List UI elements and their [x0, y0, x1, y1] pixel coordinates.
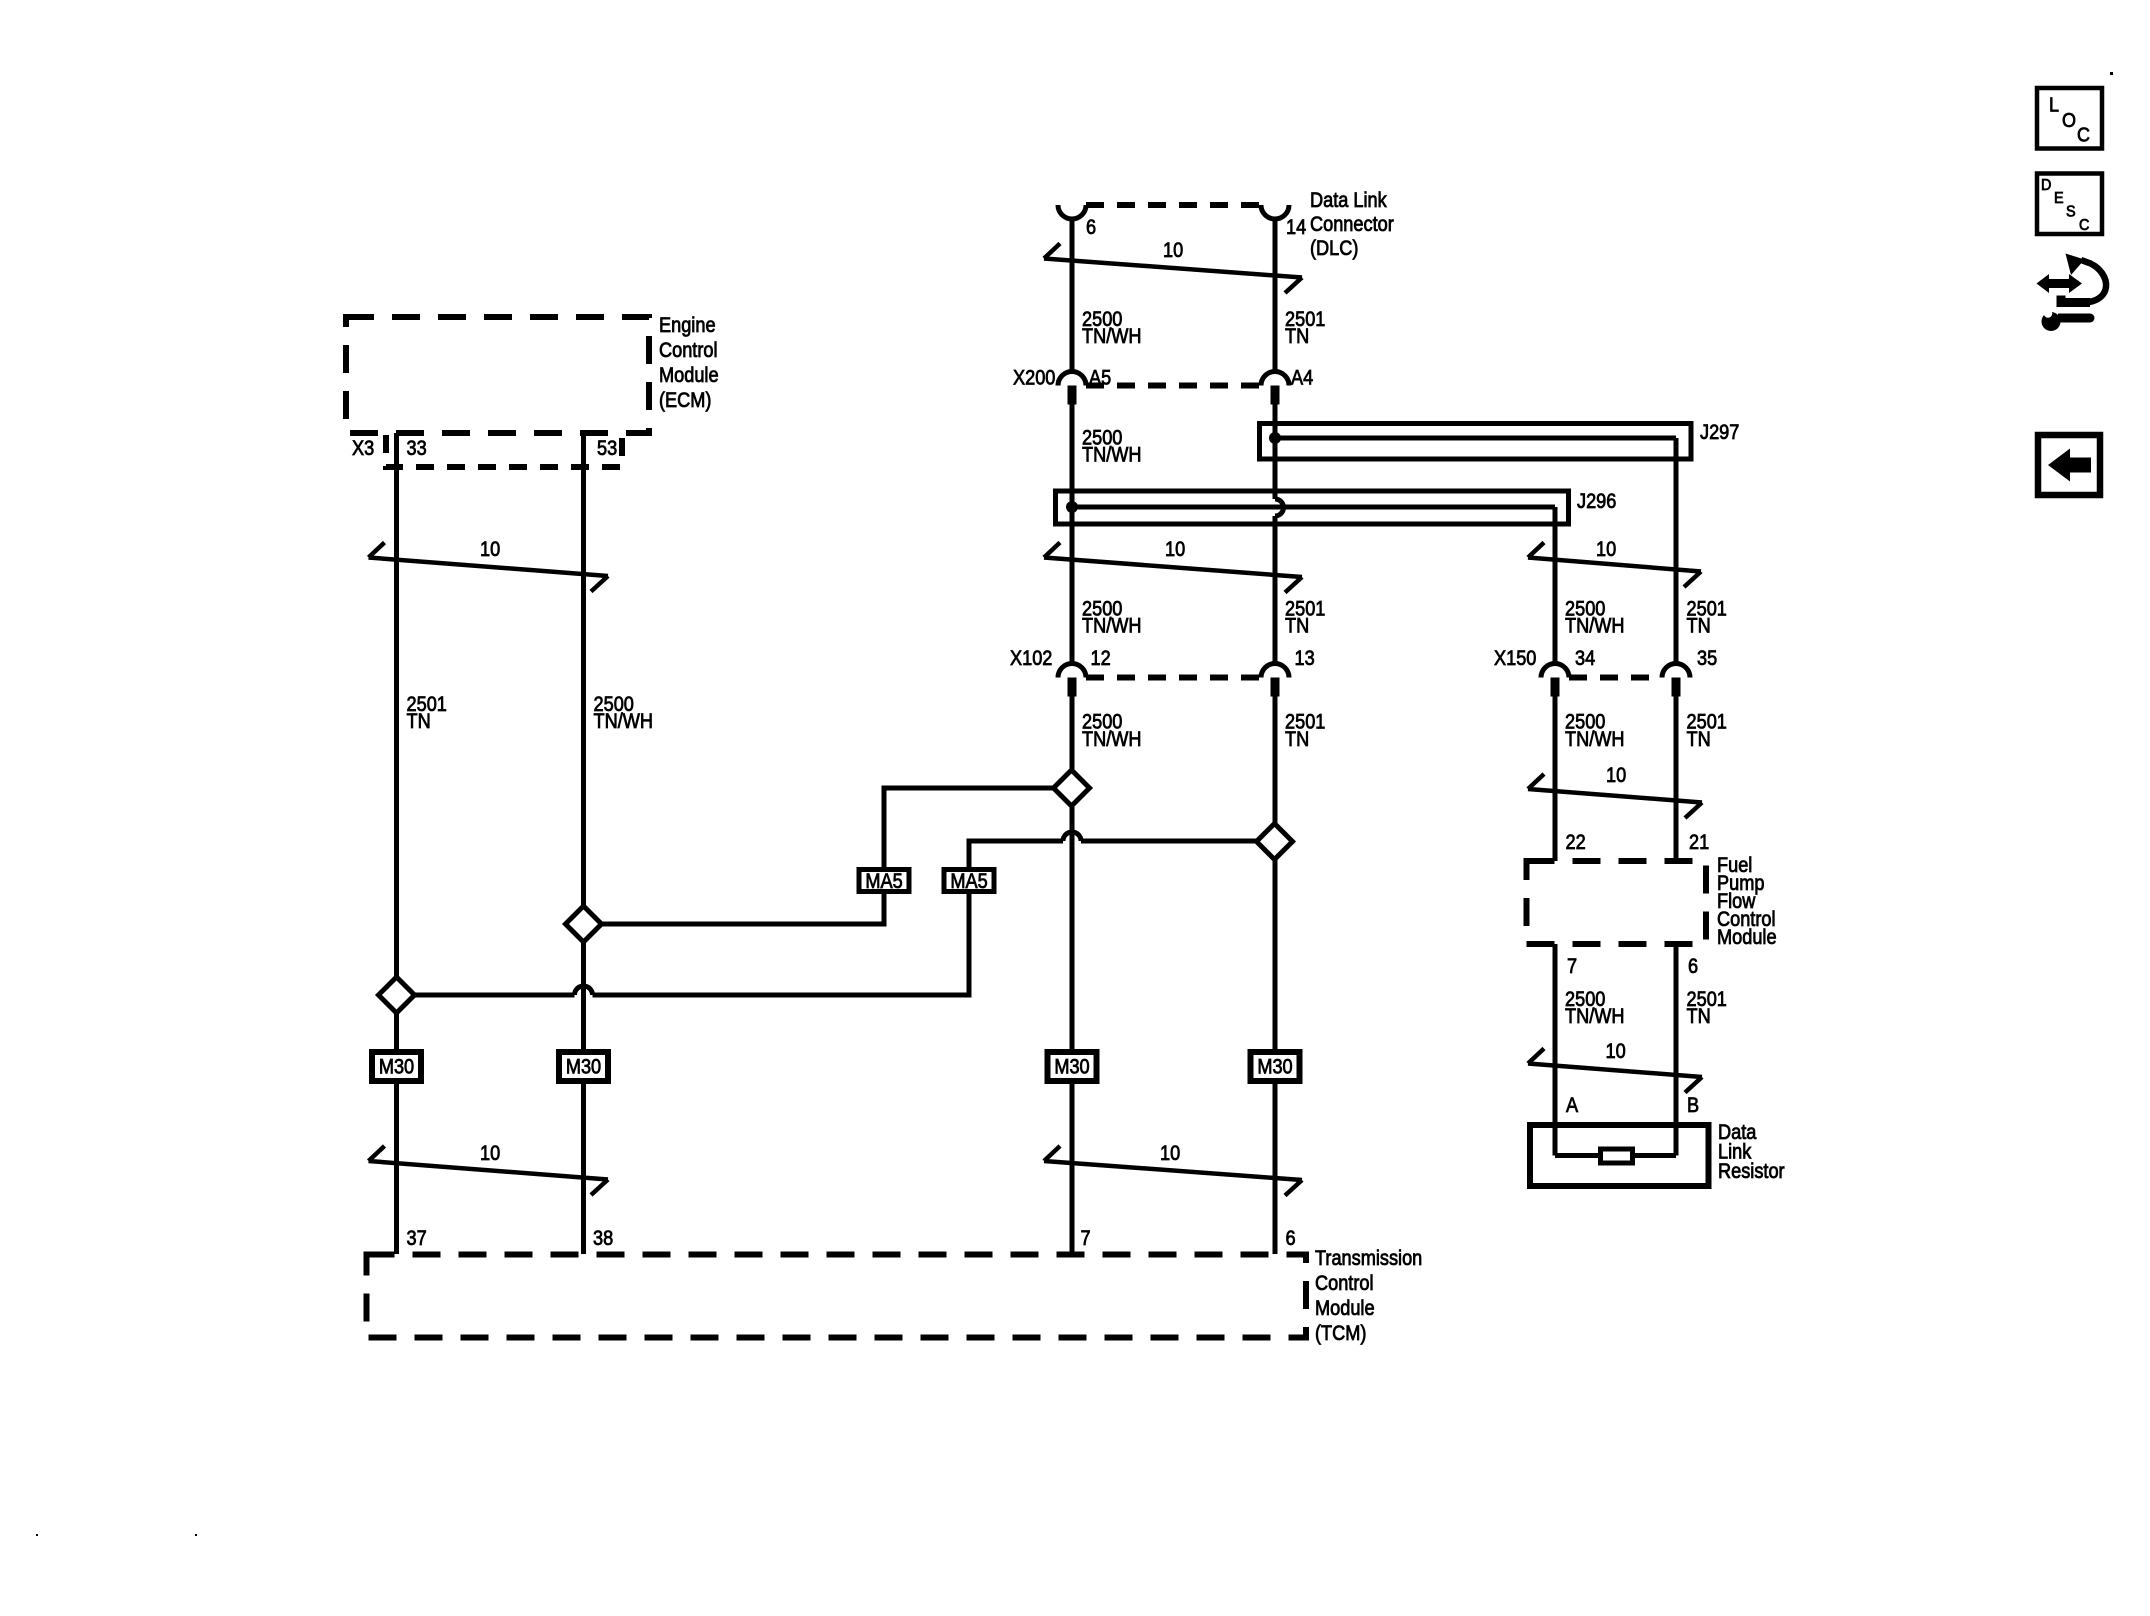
- svg-text:Module: Module: [1315, 1297, 1375, 1321]
- splice diamond on 2501 TN left wire: [379, 977, 415, 1013]
- wire net D: MA5 splice 2 to splice diamond on left 2501 TN: [397, 894, 970, 995]
- module box Transmission Control Module TCM: [367, 1255, 1307, 1338]
- svg-text:TN/WH: TN/WH: [1082, 728, 1142, 752]
- wire net C: MA5 splice 1 to splice diamond on 2500 TN/WH left: [584, 894, 885, 924]
- svg-text:10: 10: [1163, 239, 1183, 263]
- svg-text:J297: J297: [1700, 421, 1739, 445]
- svg-text:O: O: [2062, 110, 2076, 132]
- splice box M30 on left 2501 TN: [372, 1052, 421, 1081]
- small dot top right: [2110, 72, 2113, 75]
- svg-text:X200: X200: [1013, 366, 1055, 390]
- connector DLC cup pin 14: [1261, 205, 1289, 219]
- connector X102 male pin 13 stub: [1271, 678, 1280, 697]
- module box Engine Control Module ECM: [346, 317, 649, 433]
- wire hop of 2501 TN over J296 internal wire: [1275, 499, 1284, 516]
- svg-text:6: 6: [1688, 955, 1698, 979]
- connector X102 cup pin 13: [1261, 664, 1289, 678]
- svg-text:(TCM): (TCM): [1315, 1322, 1366, 1346]
- connector X150 cup pin 35: [1662, 664, 1690, 678]
- svg-text:J296: J296: [1577, 490, 1616, 514]
- connector X150 dashed line: [1569, 675, 1662, 681]
- svg-text:TN/WH: TN/WH: [1565, 1005, 1625, 1029]
- svg-text:TN/WH: TN/WH: [594, 710, 654, 734]
- svg-text:TN/WH: TN/WH: [1082, 614, 1142, 638]
- svg-text:B: B: [1687, 1094, 1699, 1118]
- svg-text:L: L: [2049, 95, 2059, 117]
- svg-text:TN/WH: TN/WH: [1565, 614, 1625, 638]
- module box Fuel Pump Flow Control Module: [1527, 861, 1707, 944]
- svg-text:MA5: MA5: [865, 870, 902, 894]
- svg-text:C: C: [2077, 125, 2090, 147]
- splice box MA5 second: [944, 870, 994, 892]
- splice diamond on 2500 TN/WH left wire: [566, 906, 602, 942]
- svg-text:D: D: [2041, 176, 2051, 194]
- svg-text:10: 10: [1596, 538, 1616, 562]
- small dot bottom left 2: [195, 1534, 197, 1536]
- svg-text:Control: Control: [1315, 1272, 1374, 1296]
- icon back arrow button: [2038, 435, 2100, 495]
- splice diamond on 2501 TN center wire: [1257, 824, 1293, 860]
- svg-text:6: 6: [1086, 216, 1096, 240]
- twisted pair symbol right lower: [1528, 1049, 1702, 1093]
- svg-text:X150: X150: [1494, 647, 1536, 671]
- wire 2500 TN/WH from ECM pin 53 to TCM pin 38: [581, 433, 586, 1254]
- svg-text:34: 34: [1575, 647, 1595, 671]
- svg-text:TN: TN: [1285, 614, 1309, 638]
- svg-text:X102: X102: [1010, 647, 1052, 671]
- svg-text:A5: A5: [1089, 366, 1111, 390]
- svg-text:(ECM): (ECM): [659, 389, 711, 413]
- svg-text:TN: TN: [1687, 728, 1711, 752]
- splice box MA5 first: [859, 870, 909, 892]
- svg-text:Module: Module: [1717, 926, 1777, 950]
- svg-text:Resistor: Resistor: [1718, 1160, 1785, 1184]
- svg-text:TN: TN: [1687, 1005, 1711, 1029]
- svg-text:12: 12: [1091, 647, 1111, 671]
- twisted pair symbol DLC top: [1044, 244, 1302, 294]
- svg-text:Control: Control: [659, 339, 718, 363]
- twisted pair symbol right upper: [1528, 543, 1701, 588]
- wire J296 internal: [1072, 505, 1555, 510]
- svg-text:6: 6: [1286, 1227, 1296, 1251]
- splice diamond on 2500 TN/WH center wire: [1054, 770, 1090, 806]
- twisted pair symbol center lower: [1044, 1146, 1302, 1196]
- svg-text:10: 10: [480, 538, 500, 562]
- connector X150 cup pin 34: [1541, 664, 1569, 678]
- svg-text:21: 21: [1689, 831, 1709, 855]
- wire 2500 TN/WH from DLC pin 6 to TCM pin 7: [1070, 217, 1075, 1254]
- svg-text:TN: TN: [407, 710, 431, 734]
- svg-text:10: 10: [1606, 764, 1626, 788]
- twisted pair symbol right middle: [1528, 774, 1702, 818]
- svg-text:37: 37: [407, 1227, 427, 1251]
- twisted pair symbol left upper: [369, 543, 609, 592]
- connector DLC dashed line: [1086, 202, 1261, 208]
- connector X150 male pin 35 stub: [1672, 678, 1681, 697]
- wire J297 internal: [1275, 436, 1676, 441]
- connector X102 cup pin 12: [1058, 664, 1086, 678]
- wire 2501 TN from ECM pin 33 to TCM pin 37: [394, 433, 399, 1254]
- icon DESC button: [2037, 174, 2102, 235]
- svg-text:Connector: Connector: [1310, 213, 1394, 237]
- twisted pair symbol center mid: [1044, 543, 1302, 593]
- wire 2501 TN from DLC pin 14 to TCM pin 6: [1273, 217, 1278, 1254]
- svg-text:TN/WH: TN/WH: [1565, 728, 1625, 752]
- resistor element inside Data Link Resistor: [1601, 1149, 1633, 1163]
- connector X200 cup pin A5: [1058, 372, 1086, 386]
- wire net B: MA5 splice 2 to splice diamond on 2501 TN: [969, 841, 1275, 867]
- svg-text:35: 35: [1697, 647, 1717, 671]
- svg-text:M30: M30: [1257, 1055, 1292, 1079]
- svg-text:TN: TN: [1285, 325, 1309, 349]
- connector X200 dashed line: [1086, 383, 1261, 389]
- splice J297 bus bar box: [1260, 424, 1692, 460]
- svg-text:M30: M30: [1054, 1055, 1089, 1079]
- connector X200 cup pin A4: [1261, 372, 1289, 386]
- svg-text:10: 10: [1606, 1040, 1626, 1064]
- splice box M30 on center 2500 TN/WH: [1048, 1052, 1097, 1081]
- connector X3 dotted box: [386, 435, 622, 467]
- icon schematic navigation wrench with rotate arrow: [2037, 254, 2107, 332]
- connector X200 male pin A5 stub: [1068, 386, 1077, 405]
- icon LOC button: [2037, 88, 2102, 149]
- connector DLC cup pin 6: [1058, 205, 1086, 219]
- wire hop of net B over 2500 TN/WH wire: [1063, 832, 1081, 841]
- svg-text:38: 38: [593, 1227, 613, 1251]
- svg-text:Module: Module: [659, 364, 719, 388]
- twisted pair symbol left lower: [369, 1146, 609, 1195]
- svg-text:(DLC): (DLC): [1310, 237, 1358, 261]
- module box Data Link Resistor: [1530, 1125, 1709, 1186]
- junction dot on 2500 TN/WH at J296: [1066, 501, 1078, 513]
- svg-text:33: 33: [407, 437, 427, 461]
- wire Data Link Resistor internal with resistor element: [1555, 1153, 1676, 1158]
- connector X200 male pin A4 stub: [1271, 386, 1280, 405]
- svg-text:C: C: [2079, 216, 2089, 234]
- splice J296 bus bar box: [1056, 491, 1569, 524]
- svg-text:M30: M30: [566, 1055, 601, 1079]
- wire hop of net D over 2500 TN/WH wire: [575, 986, 593, 995]
- svg-text:13: 13: [1295, 647, 1315, 671]
- svg-text:Engine: Engine: [659, 314, 716, 338]
- svg-text:14: 14: [1286, 216, 1306, 240]
- svg-text:TN/WH: TN/WH: [1082, 443, 1142, 467]
- small dot bottom left 1: [36, 1534, 38, 1536]
- connector X102 dashed line: [1086, 675, 1261, 681]
- svg-text:TN: TN: [1285, 728, 1309, 752]
- wire 2501 TN from J297 to Data Link Resistor pin B: [1674, 438, 1679, 1156]
- svg-text:7: 7: [1567, 955, 1577, 979]
- svg-text:53: 53: [597, 437, 617, 461]
- svg-text:Transmission: Transmission: [1315, 1247, 1422, 1271]
- svg-text:TN: TN: [1687, 614, 1711, 638]
- svg-text:M30: M30: [379, 1055, 414, 1079]
- svg-text:10: 10: [1160, 1142, 1180, 1166]
- svg-text:22: 22: [1566, 831, 1586, 855]
- splice box M30 on left 2500 TN/WH: [559, 1052, 608, 1081]
- wire 2500 TN/WH from J296 to Data Link Resistor pin A: [1553, 507, 1558, 1156]
- svg-text:E: E: [2054, 189, 2064, 207]
- svg-text:TN/WH: TN/WH: [1082, 325, 1142, 349]
- svg-text:7: 7: [1081, 1227, 1091, 1251]
- svg-text:10: 10: [480, 1142, 500, 1166]
- svg-text:X3: X3: [352, 437, 374, 461]
- junction dot on 2501 TN at J297: [1269, 432, 1281, 444]
- wire net A: MA5 splice 1 to splice diamond on 2500 TN/WH: [884, 788, 1072, 867]
- connector X102 male pin 12 stub: [1068, 678, 1077, 697]
- svg-text:A: A: [1566, 1094, 1579, 1118]
- splice box M30 on center 2501 TN: [1251, 1052, 1300, 1081]
- connector X150 male pin 34 stub: [1551, 678, 1560, 697]
- svg-text:Data Link: Data Link: [1310, 189, 1387, 213]
- svg-text:MA5: MA5: [950, 870, 987, 894]
- svg-text:10: 10: [1165, 538, 1185, 562]
- svg-text:A4: A4: [1291, 366, 1313, 390]
- svg-text:S: S: [2066, 203, 2076, 221]
